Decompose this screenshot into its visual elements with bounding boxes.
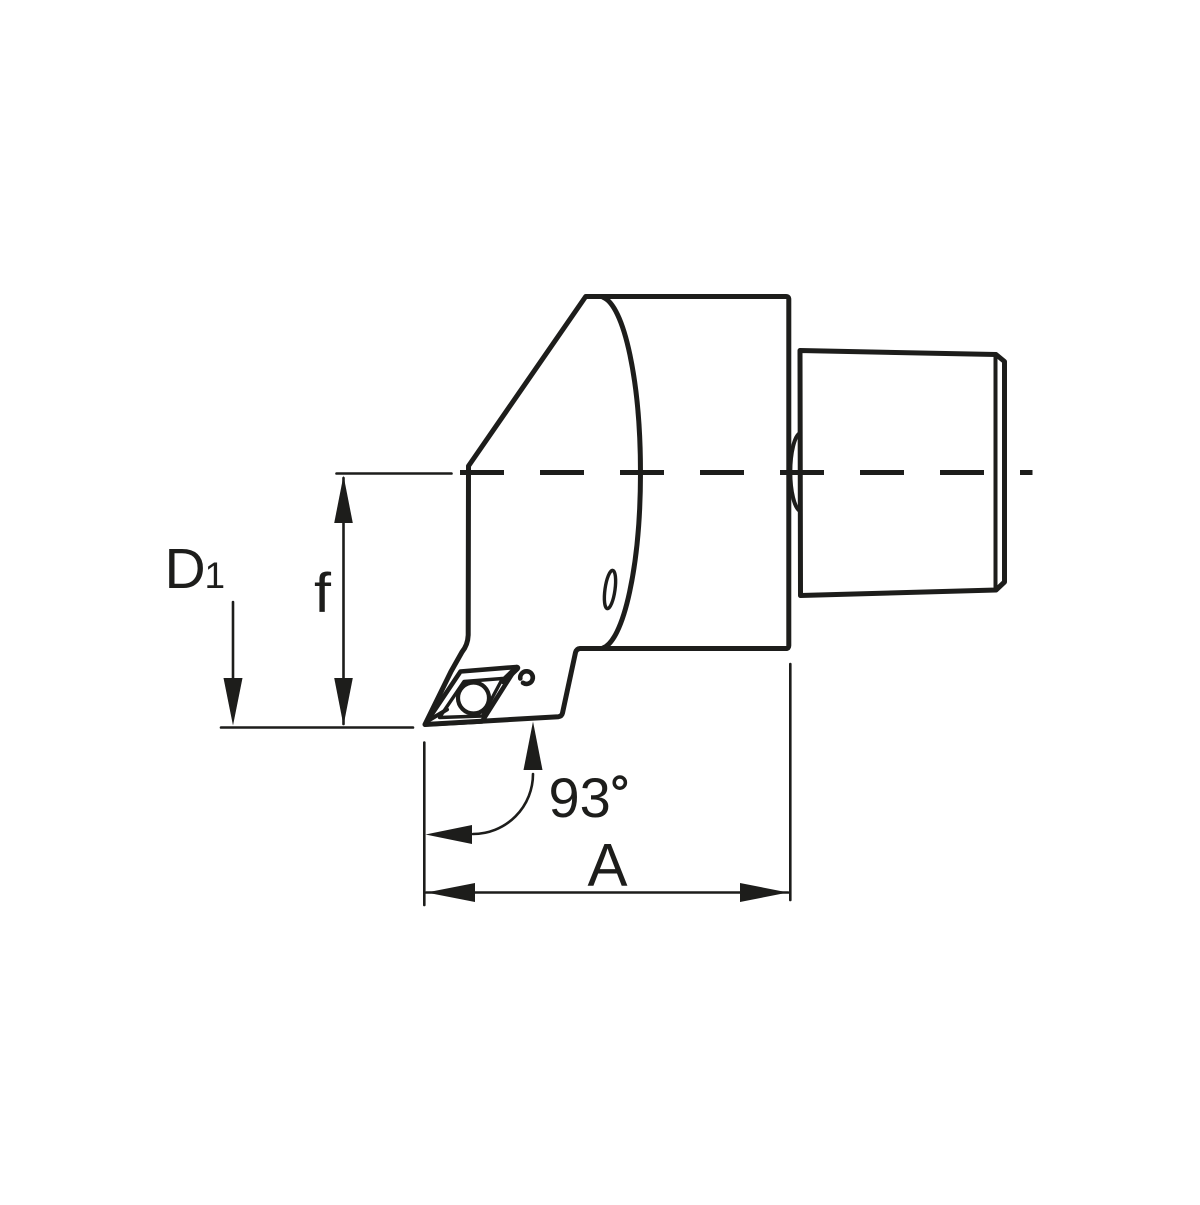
f top extension line — [337, 472, 452, 475]
small slot ellipse on body — [602, 570, 617, 610]
f arrowhead top — [334, 476, 353, 524]
body front ellipse arc — [603, 298, 640, 649]
angle up arrowhead — [524, 722, 543, 771]
dashed centerline — [460, 470, 1033, 475]
93 degree angle arc — [473, 774, 533, 834]
svg-text:D: D — [165, 537, 206, 601]
shank outline — [800, 351, 1005, 596]
svg-text:1: 1 — [205, 555, 226, 596]
svg-text:93: 93 — [549, 766, 611, 829]
degree symbol — [614, 777, 625, 788]
insert: outer diamond — [425, 667, 517, 725]
shank chamfer inner line — [994, 356, 998, 590]
tool head body outline — [425, 297, 789, 725]
insert: inner diamond — [440, 679, 503, 718]
svg-text:f: f — [314, 561, 331, 624]
shank front crescent arc — [790, 433, 800, 511]
svg-text:A: A — [588, 832, 628, 899]
angle left arrowhead — [426, 825, 473, 844]
clamp lever line — [504, 668, 518, 681]
extension line below insert tip — [423, 743, 426, 906]
f dimension line — [342, 478, 345, 724]
insert: screw hole circle — [458, 683, 489, 714]
insert: tip facet line — [429, 710, 448, 721]
D1 arrowhead — [224, 678, 243, 726]
f arrowhead bottom — [334, 678, 353, 726]
extension line below body right edge — [789, 664, 792, 900]
clamp curl — [520, 671, 533, 684]
A dimension line — [426, 891, 788, 894]
D1 leader line — [232, 602, 235, 690]
A left arrowhead — [427, 883, 476, 902]
bottom extension line (tip level) — [221, 726, 413, 729]
A right arrowhead — [740, 883, 788, 902]
thin dimension lines — [221, 474, 790, 906]
